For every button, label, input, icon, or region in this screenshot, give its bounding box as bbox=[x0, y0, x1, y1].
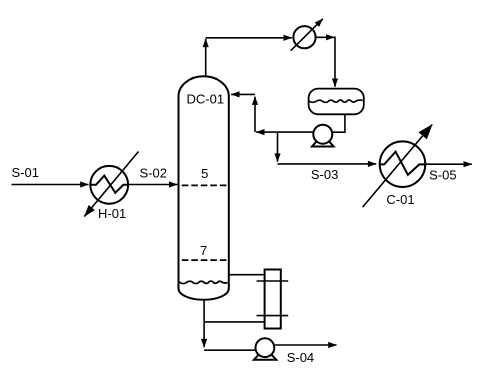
wire S-03 line to cooler bbox=[278, 163, 377, 165]
svg-text:S-04: S-04 bbox=[287, 350, 314, 365]
cooler C-01 bbox=[363, 125, 433, 208]
reboiler E (thermosiphon) bbox=[257, 270, 289, 329]
svg-text:C-01: C-01 bbox=[386, 192, 414, 207]
pump P (reflux) bbox=[312, 125, 334, 147]
wire drop to reflux drum bbox=[334, 37, 336, 87]
svg-text:S-05: S-05 bbox=[429, 168, 456, 183]
wire bottoms line to pump bbox=[204, 349, 256, 351]
wire pump discharge to junction bbox=[256, 131, 313, 133]
wire S-01 feed line bbox=[12, 184, 89, 186]
wire reflux riser bbox=[254, 97, 256, 133]
wire reboiler vapor return bbox=[229, 274, 265, 276]
tray 7 dashed line bbox=[182, 259, 227, 261]
heat exchanger H-01 bbox=[84, 152, 138, 217]
wire overhead line to condenser bbox=[206, 37, 292, 39]
svg-text:H-01: H-01 bbox=[98, 206, 126, 221]
wire overhead vapor riser bbox=[205, 39, 207, 76]
wire bottoms line down bbox=[203, 300, 205, 347]
reflux drum bbox=[309, 89, 364, 115]
wire S-02 line to column bbox=[128, 184, 177, 186]
svg-text:7: 7 bbox=[200, 243, 207, 258]
condenser bbox=[291, 19, 323, 51]
svg-text:DC-01: DC-01 bbox=[187, 92, 225, 107]
svg-text:5: 5 bbox=[201, 166, 208, 181]
wire reboiler liquid feed bbox=[204, 321, 265, 323]
wire reflux return to column bbox=[231, 93, 255, 95]
wire drum outlet down bbox=[332, 114, 345, 132]
column DC-01 bbox=[179, 76, 229, 300]
svg-text:S-02: S-02 bbox=[140, 166, 167, 181]
wire condenser outlet bbox=[316, 36, 335, 38]
wire distillate branch down bbox=[277, 132, 279, 162]
tray 5 dashed line bbox=[182, 184, 227, 186]
svg-text:S-01: S-01 bbox=[12, 165, 39, 180]
column liquid level wavy line bbox=[179, 281, 227, 283]
wire S-05 outlet bbox=[425, 163, 472, 165]
svg-text:S-03: S-03 bbox=[311, 167, 338, 182]
pump P (bottoms) bbox=[254, 338, 276, 359]
wire S-04 outlet bbox=[274, 344, 336, 346]
